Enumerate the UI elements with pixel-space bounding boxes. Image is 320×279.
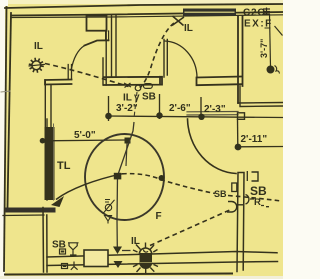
frame outer left — [4, 7, 7, 271]
wire from switch to center — [134, 92, 137, 118]
junction blob — [159, 175, 165, 181]
corridor wall vertical — [103, 30, 106, 85]
wall stub left of door — [68, 65, 71, 80]
left frame break tick — [1, 91, 10, 92]
TL bar striation — [46, 119, 48, 200]
left closet door arc — [71, 46, 84, 71]
lower square outlet — [62, 264, 68, 269]
svg-text:2'-11": 2'-11" — [241, 134, 268, 145]
east step wall to edge — [238, 86, 283, 107]
tick at x110 — [108, 96, 110, 121]
white box on south wall — [84, 250, 108, 267]
arrowhead at switch — [124, 83, 131, 88]
wire arrowhead at TL bar — [51, 196, 64, 207]
tick at x159 — [159, 94, 161, 119]
svg-text:SB: SB — [142, 92, 156, 103]
bottom-right door arc — [188, 119, 237, 174]
top wall lower line — [12, 15, 284, 18]
bottom-left closet right wall — [43, 208, 47, 273]
svg-text:2'-6": 2'-6" — [169, 103, 191, 114]
wire topright room — [140, 23, 174, 88]
svg-text:IL: IL — [123, 93, 132, 104]
middle room bottom wall — [104, 77, 162, 85]
top wall dark band white stripe — [185, 11, 234, 13]
svg-text:SB: SB — [250, 184, 267, 198]
svg-text:γ: γ — [134, 92, 140, 103]
2-11 drop line — [237, 119, 239, 146]
south wall — [47, 252, 278, 266]
wire arrow upper — [113, 247, 122, 255]
dim line 3-2/2-6/2-3 — [106, 116, 283, 118]
IL light top-left — [29, 58, 46, 73]
svg-text:TL: TL — [57, 160, 71, 172]
EXG F leader — [275, 26, 283, 36]
svg-text:R: R — [254, 197, 261, 208]
bottom-left closet top — [6, 208, 56, 213]
frame bottom — [5, 274, 232, 275]
svg-text:SB: SB — [214, 189, 227, 199]
svg-text:F: F — [156, 211, 162, 222]
middle room left wall — [112, 16, 117, 78]
middle door arc — [165, 41, 198, 78]
svg-text:C2O: C2O — [243, 8, 266, 19]
svg-text:3'-7": 3'-7" — [259, 39, 269, 58]
frame outer top — [5, 4, 283, 8]
top-right room right wall — [238, 16, 243, 103]
svg-text:3'-2": 3'-2" — [116, 103, 138, 114]
IL sconce upper on south wall — [133, 243, 158, 263]
arrow X topright — [172, 16, 184, 26]
TL bar striation2 — [53, 124, 55, 200]
2-11 dim line — [237, 146, 283, 148]
wire IL-left to switch — [45, 64, 129, 87]
lower T symbol — [71, 262, 78, 270]
glass symbol — [68, 243, 79, 255]
middle room right wall — [164, 40, 167, 78]
wire TL curve — [56, 174, 122, 200]
tick above 3-7 — [265, 27, 271, 29]
switch symbol on wall (circle) — [135, 84, 152, 91]
outlet D below — [227, 202, 243, 213]
svg-text:2'-3": 2'-3" — [204, 104, 226, 115]
EXG F dot and line — [265, 14, 283, 74]
big circle — [85, 134, 164, 220]
svg-text:IL: IL — [184, 23, 193, 34]
svg-text:SB: SB — [52, 240, 66, 251]
fan symbol under circle — [103, 200, 115, 224]
wire arrow lower — [114, 261, 123, 268]
east wall lower — [237, 173, 244, 272]
outlet left of east wall — [232, 183, 237, 192]
5-0 start dot — [40, 138, 46, 144]
5-0 end square — [125, 138, 131, 144]
dot 2-11 — [235, 144, 242, 151]
open square tick at x241 — [238, 113, 245, 120]
top-right room bottom wall — [197, 77, 243, 86]
left closet door leaf — [85, 40, 109, 45]
wire into circle — [117, 122, 134, 247]
bottom-left closet top thin line — [3, 214, 44, 217]
IL sconce lower on south wall — [133, 263, 158, 274]
svg-text:IL: IL — [131, 236, 140, 247]
dot at x110 — [105, 113, 112, 120]
closet box — [87, 16, 107, 31]
small marks right of switch — [144, 84, 153, 89]
R outlet bracket — [246, 195, 249, 205]
dot at x159 — [156, 112, 162, 118]
C2O hash — [263, 8, 270, 16]
dot at x201 — [198, 114, 204, 120]
outlet right-top of east wall — [247, 171, 258, 181]
svg-text:EX:F: EX:F — [244, 19, 273, 30]
top wall dark band — [183, 9, 236, 17]
door jamb below box — [106, 31, 109, 41]
wire through wall to right edge — [228, 196, 281, 202]
SB left-bottom: square outlet — [60, 243, 79, 270]
wire arrow tick — [122, 250, 131, 252]
wall over br-door — [187, 112, 238, 116]
L-wall horizontal — [45, 80, 72, 85]
TL dark bar — [45, 127, 55, 200]
tick at x201 — [200, 97, 202, 119]
wire across circle to SB — [122, 174, 215, 194]
svg-text:IL: IL — [34, 41, 43, 52]
frame inner left — [8, 13, 12, 207]
top wall upper line — [12, 12, 284, 16]
L-wall vertical leg — [45, 80, 51, 130]
center square — [114, 173, 122, 180]
5-0 drop line — [126, 144, 127, 167]
wire diagonal IL to D-outlet — [150, 209, 232, 246]
5-0 dim line — [43, 139, 125, 142]
svg-text:5'-0": 5'-0" — [74, 130, 96, 141]
